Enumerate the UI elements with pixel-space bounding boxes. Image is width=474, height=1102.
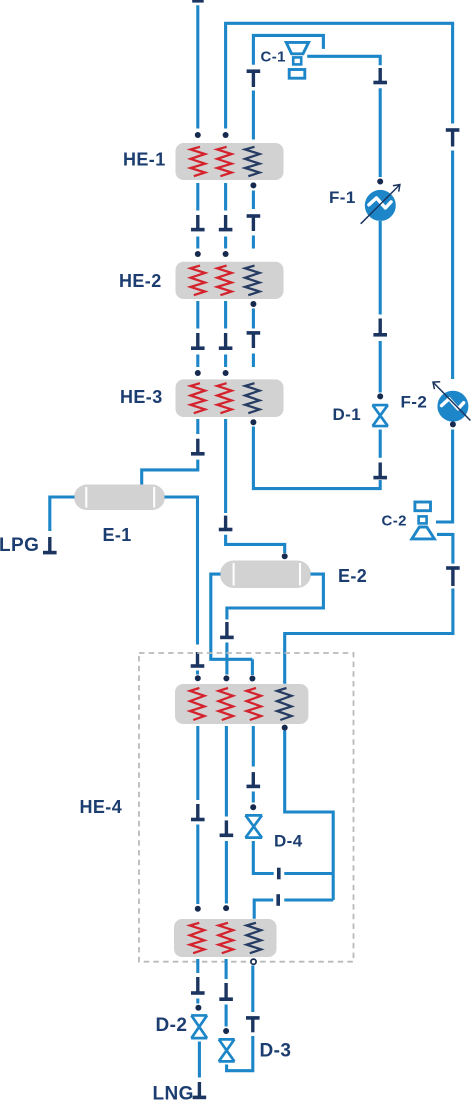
flow arrow down below C-1 <box>373 68 387 83</box>
coil red HE-4a a <box>190 688 205 720</box>
wire line1 to D-2 <box>196 999 199 1004</box>
node line2 into HE-1 <box>223 132 229 138</box>
dashed boundary HE-4 <box>139 653 354 962</box>
fan cooler F-2 <box>433 382 470 422</box>
coil red HE-4a b <box>219 688 234 720</box>
wire line1 elbow into E-1 top <box>142 460 198 485</box>
coil red HE-4a c <box>247 688 262 720</box>
svg-text:C-2: C-2 <box>382 512 407 529</box>
wire line1 HE-2 to HE-3 upper <box>196 301 199 329</box>
node feed into HE-1 <box>195 132 201 138</box>
wire navy coil riser <box>285 731 334 901</box>
heat exchanger HE-4b <box>174 919 277 957</box>
node recycle into HE-4b bottom <box>251 959 256 964</box>
wire line3 from D-1 loop <box>253 427 380 489</box>
flow arrow down LNG <box>193 1082 207 1097</box>
wire line1 HE-2 to HE-3 lower <box>196 355 199 368</box>
wire D-4 outlet right part <box>284 872 333 875</box>
node into D-2 <box>195 1005 201 1011</box>
heat exchanger HE-2 <box>176 262 284 299</box>
flow arrow down line1 gap1 <box>191 215 205 230</box>
coil red HE-4b a <box>190 923 205 953</box>
svg-text:LPG: LPG <box>0 535 39 556</box>
wire right line to HE-4a loop <box>285 589 453 684</box>
node line2 into HE-3 <box>223 370 229 376</box>
compressor C-2 <box>412 502 435 539</box>
wire line2 to D-3 <box>225 1005 228 1027</box>
wire line2 below HE-3 <box>224 419 227 513</box>
wire line3 to D-4 <box>252 792 255 803</box>
flow arrow down line2 gap1 <box>219 215 233 230</box>
coil navy HE-3 <box>245 383 260 413</box>
wire feed line top <box>196 5 199 128</box>
label D-1 <box>333 405 362 424</box>
flow arrow down line1 to D-2 <box>191 977 205 993</box>
wire LPG outlet <box>50 497 75 531</box>
coil red HE-1 a <box>191 147 206 176</box>
node E-1 vapor into HE-4a <box>195 675 201 681</box>
wire F-2 inlet from C-2 <box>436 430 453 523</box>
wire line3 below HE-2 dot <box>252 309 255 329</box>
flow arrow down E-2 vapor <box>220 622 234 637</box>
heat exchanger HE-1 <box>176 143 284 180</box>
flow arrow up recycle <box>246 1018 260 1032</box>
node into D-1 <box>377 393 383 399</box>
wire C-1 outlet <box>307 56 380 65</box>
svg-text:HE-2: HE-2 <box>119 271 162 291</box>
node line1 into HE-3 <box>195 370 201 376</box>
wire line1 below HE-4b <box>196 959 199 973</box>
svg-text:E-1: E-1 <box>103 525 132 545</box>
separator E-1 <box>74 485 165 511</box>
wire line2 HE-2 to HE-3 upper <box>224 301 227 329</box>
wire E-2 liquid outlet <box>211 574 253 659</box>
flow arrow right HE-4b exit <box>276 894 280 906</box>
wire line3 below HE-4a <box>252 726 255 767</box>
coil red HE-1 b <box>217 147 232 176</box>
fan cooler F-1 <box>361 185 400 224</box>
flow arrow down line3 to D-4 <box>247 772 261 786</box>
flow arrow up line3 gap1 <box>247 216 261 231</box>
node line2 into E-2 <box>282 553 288 559</box>
label HE-1 <box>123 150 166 170</box>
svg-text:HE-1: HE-1 <box>123 150 166 170</box>
label D-4 <box>274 832 303 851</box>
label E-1 <box>103 525 132 545</box>
flow arrow down LPG <box>43 537 57 553</box>
flow arrow up line3 gap2 <box>247 333 261 348</box>
valve D-2 <box>191 1015 207 1038</box>
node into HE-4a coil4 bottom <box>282 725 288 731</box>
flow arrow right D-4 outlet <box>277 868 281 880</box>
node E-2 vapor into HE-4a <box>223 675 229 681</box>
node E-2 liquid into HE-4a <box>249 676 255 682</box>
flow arrow down below D-1 <box>373 463 387 478</box>
wire E-1 vapor to HE-4a <box>196 671 199 675</box>
compressor C-1 <box>286 42 308 78</box>
label D-3 <box>260 1041 292 1062</box>
wire line3 into HE-3 bottom <box>252 354 255 368</box>
flow arrow down line2 gap2 <box>219 333 233 348</box>
flow arrow down line1 to E-1 <box>191 439 205 454</box>
wire line1 to HE-4b <box>196 825 199 905</box>
svg-text:HE-4: HE-4 <box>80 797 123 817</box>
svg-text:D-3: D-3 <box>260 1041 292 1062</box>
node line2 into HE-4b <box>223 905 229 911</box>
wire line3 HE-1 to C-1 inlet <box>253 35 323 64</box>
label F-2 <box>401 392 428 411</box>
node line3 into HE-1 bottom <box>250 182 256 188</box>
wire E-2 liquid down <box>251 659 254 675</box>
coil navy HE-2 <box>245 266 260 296</box>
wire D-1 outlet <box>379 430 382 458</box>
wire arrow to D-1 <box>379 341 382 393</box>
wire line2 elbow to E-2 top <box>226 535 285 553</box>
label F-1 <box>329 188 356 207</box>
coil red HE-3 b <box>217 383 232 413</box>
wire E-1 vapor outlet <box>165 497 198 645</box>
node line3 into HE-3 bottom <box>250 419 256 425</box>
wire line1 below HE-4a <box>196 726 199 800</box>
coil navy HE-4a <box>277 688 292 720</box>
flow arrow down line2 to E-2 <box>219 516 233 530</box>
wire E-2 vapor to HE-4a <box>225 643 228 675</box>
svg-text:E-2: E-2 <box>338 566 367 586</box>
coil red HE-2 b <box>217 266 232 296</box>
coil navy HE-1 <box>245 147 260 176</box>
wire line3 into HE-2 bottom <box>252 236 255 249</box>
wire line2 below HE-4b <box>225 959 228 979</box>
wire top return line <box>226 23 453 128</box>
wire line2 below HE-4a <box>225 726 228 817</box>
valve D-3 <box>219 1039 235 1061</box>
label HE-2 <box>119 271 162 291</box>
wire E-2 vapor outlet <box>227 574 324 619</box>
heat exchanger HE-4a <box>175 684 308 724</box>
wire line1 HE-1 to HE-2 upper <box>196 183 199 211</box>
svg-text:C-1: C-1 <box>261 48 286 65</box>
label LNG <box>153 1084 194 1102</box>
label C-2 <box>382 512 407 529</box>
feed inlet marker <box>192 0 204 3</box>
node into D-4 <box>250 804 256 810</box>
flow arrow down line1 HE-4 gap <box>191 804 205 820</box>
wire recycle into HE-4b <box>251 966 254 1013</box>
label E-2 <box>338 566 367 586</box>
wire right line upper <box>451 151 454 380</box>
label HE-3 <box>120 387 163 407</box>
wire line2 HE-2 to HE-3 lower <box>224 355 227 368</box>
flow arrow up below C-2 <box>446 568 460 586</box>
node line2 into HE-2 <box>223 251 229 257</box>
node into D-3 <box>223 1028 229 1034</box>
label D-2 <box>156 1015 188 1036</box>
flow arrow up line3 top <box>247 71 261 87</box>
wire HE-4b coil3 exit left part <box>254 900 273 919</box>
flow arrow down F-1 to D-1 <box>373 319 387 335</box>
wire line1 HE-1 to HE-2 lower <box>196 237 199 249</box>
svg-text:LNG: LNG <box>153 1084 194 1102</box>
svg-text:D-4: D-4 <box>274 832 303 851</box>
node line3 into HE-2 bottom <box>250 301 256 307</box>
svg-text:D-1: D-1 <box>333 405 362 424</box>
wire line1 below HE-3 <box>196 419 199 434</box>
wire line2 to HE-4b <box>225 841 228 904</box>
wire D-3 recycle elbow <box>227 1036 253 1071</box>
svg-text:HE-3: HE-3 <box>120 387 163 407</box>
svg-text:F-2: F-2 <box>401 392 428 411</box>
coil red HE-4b b <box>219 923 234 953</box>
coil red HE-2 a <box>191 266 206 296</box>
flow arrow down E-1 vapor <box>191 652 205 666</box>
wire C-1 outlet to F-1 <box>379 88 382 177</box>
wire HE-4b coil3 exit right part <box>284 898 333 901</box>
heat exchanger HE-3 <box>176 379 284 417</box>
wire line3 below HE-1 dot <box>252 191 255 210</box>
wire line2 HE-1 to HE-2 lower <box>224 237 227 249</box>
coil navy HE-4b <box>247 923 262 953</box>
flow arrow up right line top <box>446 130 460 147</box>
label HE-4 <box>80 797 123 817</box>
flow arrow down line2 HE-4 gap <box>220 820 234 835</box>
wire D-2 outlet <box>198 1042 201 1078</box>
valve D-1 <box>372 405 388 426</box>
coil red HE-3 a <box>191 383 206 413</box>
flow arrow down line1 gap2 <box>191 333 205 348</box>
svg-text:F-1: F-1 <box>329 188 356 207</box>
wire F-1 to arrow <box>379 221 382 315</box>
label LPG <box>0 535 39 556</box>
node into F-1 <box>377 179 383 185</box>
flow arrow down line2 to D-3 <box>219 983 233 999</box>
wire C-2 inlet stub <box>437 534 453 563</box>
wire D-4 outlet left part <box>253 841 273 874</box>
separator E-2 <box>220 561 311 589</box>
valve D-4 <box>245 815 262 837</box>
label C-1 <box>261 48 286 65</box>
node line1 into HE-2 <box>195 251 201 257</box>
svg-text:D-2: D-2 <box>156 1015 188 1036</box>
wire line2 HE-1 to HE-2 upper <box>224 183 227 211</box>
node line1 into HE-4b <box>195 906 201 912</box>
wire line3 above HE-1 <box>252 91 255 140</box>
node into F-2 from below <box>450 421 456 427</box>
